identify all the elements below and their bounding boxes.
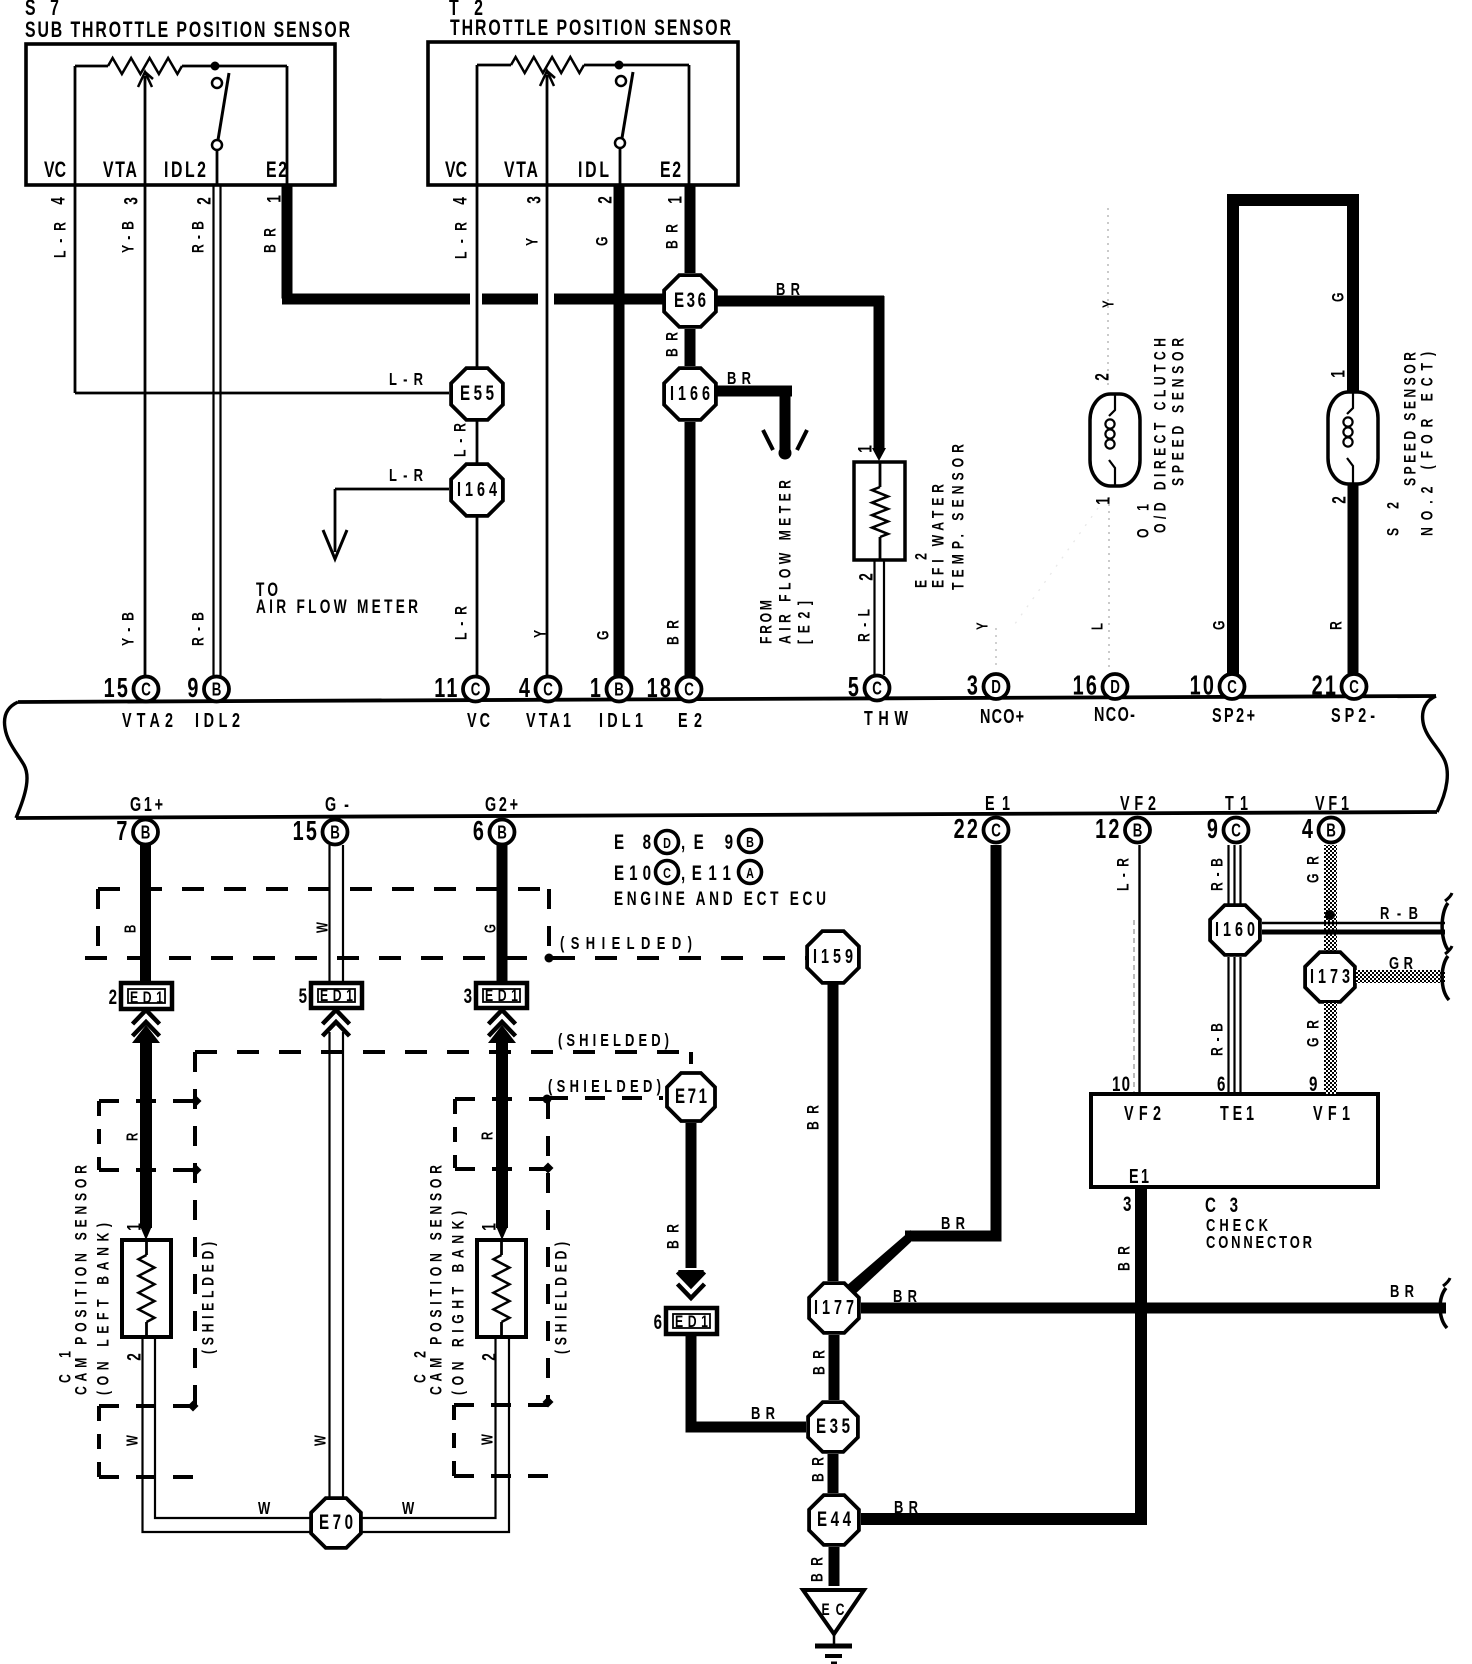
svg-text:1: 1: [478, 1223, 500, 1231]
svg-text:C: C: [991, 820, 1001, 841]
svg-text:(SHIELDED): (SHIELDED): [548, 1077, 661, 1097]
svg-text:4: 4: [449, 197, 471, 205]
svg-text:IDL2: IDL2: [164, 159, 206, 183]
svg-text:22: 22: [954, 814, 980, 845]
svg-text:B: B: [212, 679, 222, 700]
svg-text:C: C: [1227, 677, 1237, 698]
svg-text:B: B: [497, 822, 507, 843]
svg-text:D: D: [991, 677, 1001, 698]
svg-text:C 3: C 3: [1205, 1192, 1238, 1216]
svg-text:FROM: FROM: [758, 600, 776, 644]
svg-text:15: 15: [104, 673, 130, 704]
svg-text:3: 3: [1123, 1191, 1131, 1215]
svg-text:THROTTLE POSITION SENSOR: THROTTLE POSITION SENSOR: [450, 17, 731, 41]
svg-text:21: 21: [1312, 670, 1338, 701]
svg-text:L-R: L-R: [52, 222, 70, 258]
svg-text:E2: E2: [266, 159, 287, 183]
svg-text:VTA: VTA: [103, 159, 137, 183]
svg-text:R: R: [123, 1133, 141, 1141]
svg-text:11: 11: [434, 673, 459, 704]
svg-text:R-B: R-B: [1380, 904, 1418, 924]
svg-text:C: C: [543, 679, 553, 700]
svg-text:4: 4: [47, 197, 69, 205]
svg-text:O 1: O 1: [1135, 504, 1153, 538]
svg-text:2: 2: [594, 196, 616, 204]
svg-text:VF2: VF2: [1120, 792, 1156, 815]
svg-text:VF1: VF1: [1313, 1102, 1350, 1125]
svg-text:E36: E36: [674, 287, 706, 311]
svg-text:R-B: R-B: [190, 612, 208, 646]
svg-text:R-B: R-B: [190, 221, 208, 253]
svg-text:E 2: E 2: [913, 553, 931, 588]
svg-text:S 2: S 2: [1385, 502, 1403, 536]
svg-text:2: 2: [1328, 496, 1350, 504]
svg-text:SP2+: SP2+: [1212, 704, 1255, 727]
svg-text:2: 2: [109, 984, 117, 1008]
svg-text:9: 9: [1309, 1071, 1317, 1095]
svg-text:18: 18: [647, 673, 673, 704]
svg-text:R: R: [478, 1132, 496, 1140]
svg-text:7: 7: [116, 816, 129, 847]
svg-text:9: 9: [1207, 814, 1220, 845]
svg-text:L-R: L-R: [452, 423, 470, 457]
svg-text:R-L: R-L: [856, 609, 874, 642]
svg-text:L-R: L-R: [389, 466, 423, 486]
svg-text:O/D DIRECT CLUTCH: O/D DIRECT CLUTCH: [1152, 338, 1170, 533]
svg-text:G: G: [1330, 292, 1348, 302]
svg-text:E 8: E 8: [614, 829, 651, 853]
svg-text:C: C: [141, 679, 151, 700]
svg-text:4: 4: [519, 673, 532, 704]
svg-text:C: C: [684, 679, 694, 700]
svg-text:VF2: VF2: [1124, 1102, 1161, 1125]
svg-text:15: 15: [293, 816, 319, 847]
svg-text:W: W: [478, 1433, 496, 1445]
svg-text:B: B: [121, 925, 139, 933]
svg-text:3: 3: [523, 196, 545, 204]
svg-text:9: 9: [187, 673, 200, 704]
svg-text:W: W: [311, 1434, 329, 1446]
svg-text:VF1: VF1: [1315, 792, 1349, 815]
svg-text:L: L: [1088, 623, 1106, 630]
svg-text:ED1: ED1: [485, 987, 518, 1005]
svg-text:R-B: R-B: [1209, 858, 1227, 891]
svg-text:L-R: L-R: [389, 370, 423, 390]
svg-text:B: B: [1133, 820, 1143, 841]
svg-text:B: B: [1326, 820, 1336, 841]
svg-text:E35: E35: [816, 1413, 850, 1437]
svg-text:ED1: ED1: [130, 989, 163, 1007]
svg-text:B: B: [746, 833, 754, 850]
svg-text:1: 1: [590, 673, 603, 704]
svg-text:G: G: [481, 924, 499, 933]
svg-text:Y: Y: [524, 238, 542, 246]
svg-text:E10: E10: [614, 860, 651, 884]
svg-text:C: C: [471, 679, 481, 700]
svg-text:B: B: [141, 822, 151, 843]
svg-text:5: 5: [299, 983, 307, 1007]
svg-text:D: D: [1110, 677, 1120, 698]
svg-text:C: C: [1349, 677, 1359, 698]
svg-text:R-B: R-B: [1209, 1023, 1227, 1056]
svg-text:4: 4: [1302, 814, 1315, 845]
svg-text:G: G: [1211, 620, 1229, 630]
svg-text:(ON RIGHT BANK): (ON RIGHT BANK): [450, 1211, 468, 1395]
svg-text:3: 3: [967, 670, 980, 701]
svg-text:E55: E55: [460, 380, 494, 404]
svg-text:6: 6: [473, 816, 486, 847]
svg-text:10: 10: [1112, 1071, 1130, 1095]
svg-text:16: 16: [1073, 670, 1099, 701]
svg-text:3: 3: [464, 983, 472, 1007]
svg-text:2: 2: [193, 197, 215, 205]
svg-text:1: 1: [1327, 370, 1349, 378]
svg-text:W: W: [123, 1434, 141, 1446]
svg-text:1: 1: [854, 445, 876, 453]
svg-text:E71: E71: [675, 1083, 707, 1107]
svg-text:W: W: [402, 1499, 414, 1519]
svg-text:C: C: [663, 864, 671, 881]
svg-text:C: C: [1231, 820, 1241, 841]
svg-text:VTA: VTA: [504, 159, 538, 183]
svg-text:E70: E70: [319, 1509, 353, 1533]
svg-text:TE1: TE1: [1220, 1102, 1254, 1125]
svg-text:1: 1: [1092, 497, 1114, 505]
svg-text:R: R: [1328, 621, 1346, 630]
svg-text:VC: VC: [44, 159, 66, 183]
svg-text:D: D: [663, 834, 671, 851]
svg-text:A: A: [746, 864, 754, 881]
svg-text:1: 1: [664, 196, 686, 204]
svg-text:G1+: G1+: [130, 793, 163, 816]
svg-text:(SHIELDED): (SHIELDED): [553, 1242, 571, 1354]
svg-text:L-R: L-R: [453, 606, 471, 640]
svg-text:EFI WATER: EFI WATER: [930, 484, 948, 588]
svg-text:5: 5: [848, 672, 861, 703]
svg-text:6: 6: [1217, 1071, 1225, 1095]
svg-text:THW: THW: [864, 707, 908, 730]
svg-text:3: 3: [120, 197, 142, 205]
svg-text:(SHIELDED): (SHIELDED): [558, 1031, 669, 1051]
svg-text:ED1: ED1: [675, 1313, 708, 1331]
svg-text:B: B: [614, 679, 624, 700]
svg-text:G: G: [595, 630, 613, 640]
svg-text:2: 2: [1091, 373, 1113, 381]
svg-text:E2: E2: [660, 159, 681, 183]
svg-text:1: 1: [123, 1223, 145, 1231]
svg-text:B: B: [330, 822, 340, 843]
svg-text:ED1: ED1: [320, 987, 353, 1005]
svg-text:W: W: [258, 1499, 270, 1519]
svg-text:G2+: G2+: [485, 793, 518, 816]
svg-text:Y: Y: [1099, 300, 1117, 308]
svg-text:S 7: S 7: [25, 0, 59, 21]
svg-text:6: 6: [654, 1309, 662, 1333]
svg-text:10: 10: [1190, 670, 1216, 701]
svg-text:(SHIELDED): (SHIELDED): [200, 1242, 218, 1354]
svg-text:E44: E44: [817, 1506, 852, 1530]
svg-text:CONNECTOR: CONNECTOR: [1206, 1233, 1312, 1253]
svg-text:VC: VC: [445, 159, 467, 183]
svg-text:Y: Y: [973, 622, 991, 630]
svg-text:Y-B: Y-B: [120, 612, 138, 646]
svg-text:2: 2: [478, 1353, 500, 1361]
svg-text:12: 12: [1095, 814, 1121, 845]
svg-text:L-R: L-R: [1115, 858, 1133, 891]
svg-text:L-R: L-R: [453, 222, 471, 259]
svg-text:G: G: [594, 236, 612, 246]
svg-text:Y-B: Y-B: [120, 221, 138, 253]
svg-text:C: C: [872, 678, 882, 699]
